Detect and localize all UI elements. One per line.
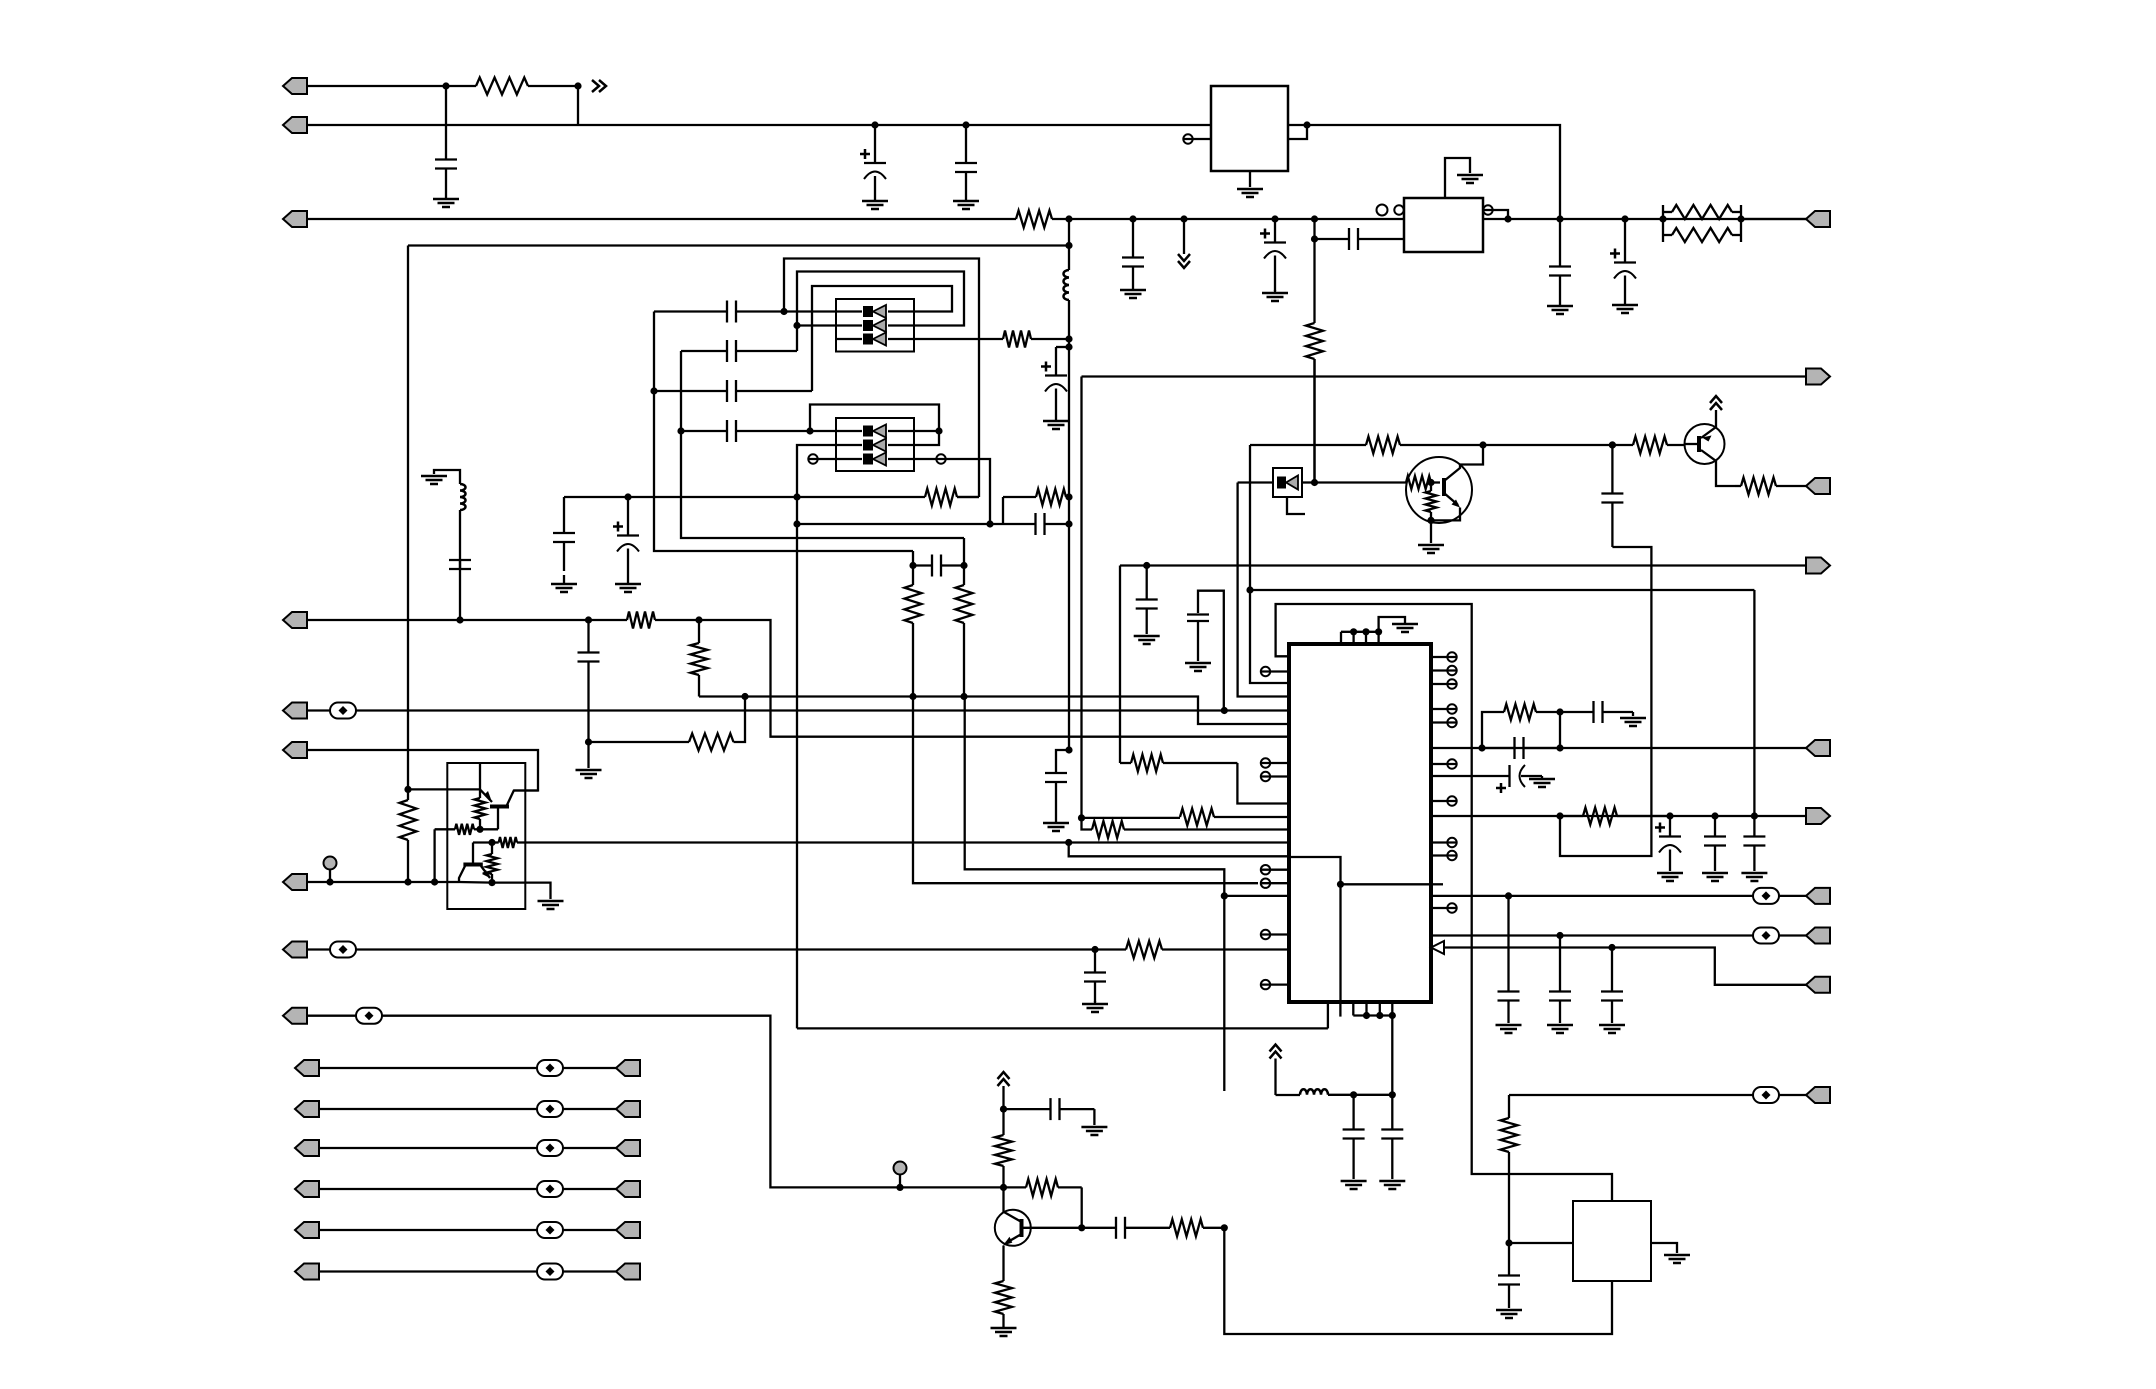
ground G35 (C39): [1185, 663, 1211, 671]
capacitor C2 (polarized): [860, 125, 886, 199]
wire feedback rect: [1276, 604, 1612, 1201]
wire y445 mid: [1483, 444, 1612, 446]
ground G10: [1547, 303, 1573, 314]
ground G1: [433, 197, 459, 207]
pin U3 left circle 984: [1261, 980, 1289, 989]
wire Q4 emitter: [1716, 464, 1735, 486]
junction row935-C32: [1556, 932, 1563, 939]
transistor Q3: [995, 1210, 1031, 1246]
junction Q2 collector node: [1479, 441, 1486, 448]
junction row896-C31: [1505, 892, 1512, 899]
junction rail696-R9: [909, 693, 916, 700]
wire x1081 vertical: [1080, 377, 1082, 818]
junction jog-x1224: [1221, 892, 1228, 899]
connector P4 (rail3 right): [1806, 211, 1830, 227]
connector P15 (bottom row 5): [295, 1222, 319, 1238]
wire Q3 emitter lead: [1002, 1246, 1004, 1281]
junction row748-a: [1478, 744, 1485, 751]
wire row710 a: [307, 709, 330, 711]
wire osc pin down: [1391, 1016, 1393, 1095]
wire y245 vertical: [407, 246, 409, 790]
junction rail3-arrow: [1180, 215, 1187, 222]
ground G26: [1496, 1025, 1522, 1033]
resistor R7: [925, 489, 979, 506]
junction U1 output: [1303, 121, 1310, 128]
junction osc-C37: [1389, 1091, 1396, 1098]
wire net-A vertical mid: [1068, 300, 1070, 750]
wire x1120 vertical: [1119, 566, 1121, 764]
capacitor C13: [654, 380, 736, 402]
connector P23 (row 935): [1806, 928, 1830, 944]
connector P5 (row 620): [283, 612, 307, 628]
wire row935: [1431, 934, 1807, 936]
pin U3 right circle 764: [1431, 759, 1457, 768]
capacitor C21: [578, 620, 600, 742]
zener diode D1 (in box): [1273, 468, 1302, 497]
net marker oval (bottom row 1): [537, 1060, 563, 1076]
junction rail3-D: [1556, 215, 1563, 222]
capacitor C38: [1498, 1243, 1520, 1308]
connector P14 (bottom row 4): [295, 1181, 319, 1197]
capacitor C34: [1004, 1098, 1095, 1120]
pin FL2 row3 left (circle): [808, 454, 836, 463]
junction rail2-C3: [962, 121, 969, 128]
wire row950: [356, 948, 1126, 950]
wire y245 line: [408, 244, 1069, 246]
wire osc inductor lead: [1276, 1094, 1301, 1096]
wire bottom row 2 right: [563, 1108, 616, 1110]
connector P12R (bottom row 2 right): [616, 1101, 640, 1117]
wire to P4: [1741, 218, 1807, 220]
junction y445 right: [1609, 441, 1616, 448]
wire crystal left pin: [1509, 1242, 1573, 1244]
wire x1224 lower vertical: [1223, 896, 1225, 1091]
junction x797-y497: [793, 493, 800, 500]
IC U3 (main IC): [1289, 644, 1431, 1002]
resistor R14: [400, 789, 417, 882]
junction net-A RC2: [1065, 520, 1072, 527]
wire bottom row 3 right: [563, 1147, 616, 1149]
net marker oval (bottom row 2): [537, 1101, 563, 1117]
net marker oval (bottom row 5): [537, 1222, 563, 1238]
wire bottom row 1 left: [319, 1067, 537, 1069]
junction rail2-C2: [871, 121, 878, 128]
pin U2 right edge circle: [1483, 205, 1493, 214]
wire FL2 row1 right stub: [914, 430, 939, 432]
capacitor C36: [1343, 1095, 1365, 1179]
capacitor C28 (polarized): [1655, 816, 1681, 871]
junction y497 pcap: [624, 493, 631, 500]
connector P10 (row 1016): [283, 1008, 307, 1024]
wire bottom row 5 left: [319, 1229, 537, 1231]
resistor R32: [995, 1280, 1012, 1326]
junction rail696-R13: [741, 693, 748, 700]
junction top pins a: [1350, 628, 1357, 635]
wire bus x654: [654, 312, 913, 552]
ground G15: [576, 770, 602, 778]
wire block output y842: [525, 841, 1289, 843]
wire bottom row 6 right: [563, 1270, 616, 1272]
wire x1250 vertical: [1250, 445, 1289, 683]
net marker oval (bottom row 6): [537, 1264, 563, 1280]
junction U2 out on rail3: [1504, 215, 1511, 222]
wire bottom row 2 left: [319, 1108, 537, 1110]
ground G2: [862, 199, 888, 209]
wire U1 bottom pin: [1249, 171, 1251, 187]
junction rail3-C4: [1129, 215, 1136, 222]
junction x654-C13: [650, 387, 657, 394]
resistor R30 (feedback): [1004, 1179, 1082, 1196]
wire C20 to L2: [459, 510, 461, 534]
connector P20 (row 748): [1806, 740, 1830, 756]
net label marker (gray circle row1016): [894, 1162, 907, 1188]
resistor R23: [1735, 478, 1807, 495]
junction row620-x588: [585, 616, 592, 623]
ground G33: [1496, 1310, 1522, 1318]
capacitor C3: [955, 125, 977, 199]
wire emitter node wire: [459, 881, 492, 884]
capacitor C5 (polarized): [1260, 219, 1286, 291]
wire y1028 line: [797, 1027, 1328, 1029]
wire top pins to ground: [1379, 617, 1405, 632]
resistor R12: [691, 620, 708, 697]
capacitor C12: [681, 340, 797, 362]
ground G22: [1529, 776, 1555, 787]
junction row620-C20: [456, 616, 463, 623]
wire FL2 row3 to y524: [946, 459, 990, 524]
junction Q2 emitter: [1427, 517, 1434, 524]
junction top pins b: [1362, 628, 1369, 635]
wire loop rectA: [784, 259, 979, 498]
wire zener anode stub: [1287, 497, 1305, 514]
junction net-A R3: [1065, 335, 1072, 342]
wire Q3 base lead: [1024, 1227, 1113, 1229]
capacitor C1: [435, 86, 457, 197]
connector P14R (bottom row 4 right): [616, 1181, 640, 1197]
wire bottom row 6 left: [319, 1270, 537, 1272]
connector P13R (bottom row 3 right): [616, 1140, 640, 1156]
capacitor C33: [1601, 948, 1623, 1024]
wire loop FL2: [810, 405, 939, 446]
junction row947-C33: [1608, 944, 1615, 951]
wire row1: [307, 85, 446, 87]
pin U3 right circle 855.5: [1431, 851, 1457, 860]
junction row882-b: [431, 878, 438, 885]
junction x1250-y590: [1246, 586, 1253, 593]
junction row882-R14: [404, 878, 411, 885]
capacitor C35: [1112, 1217, 1146, 1239]
capacitor C22: [1084, 950, 1106, 1003]
wire y590 line: [1250, 589, 1754, 591]
wire row1016 a: [307, 1015, 356, 1017]
connector P21 (row 816): [1806, 808, 1830, 824]
resistor R28: [1560, 808, 1670, 825]
net marker oval (bottom row 3): [537, 1140, 563, 1156]
junction C19 right: [960, 562, 967, 569]
wire row1095 b: [1779, 1094, 1807, 1096]
wire R26 to pin803: [1237, 763, 1289, 804]
pin U3 right circle 908: [1431, 903, 1457, 912]
connector P18 (row 376): [1806, 369, 1830, 385]
wire loop rectB: [797, 272, 964, 352]
capacitor C17: [1003, 513, 1069, 535]
wire C34 gnd hook: [1093, 1109, 1095, 1125]
resistor R22: [1612, 437, 1685, 454]
resistor R24: [1180, 809, 1289, 826]
junction net-B C8: [1311, 235, 1318, 242]
wire row566: [1120, 564, 1807, 566]
wire y524: [797, 523, 1003, 525]
IC U3 top pins: [1341, 632, 1379, 644]
capacitor C15 (polarized): [613, 497, 639, 581]
junction osc-C36: [1350, 1091, 1357, 1098]
connector P16R (bottom row 6 right): [616, 1264, 640, 1280]
junction C11 out: [780, 308, 787, 315]
junction rectB row2: [793, 322, 800, 329]
filter module FL2: [836, 418, 914, 471]
junction rail3-B: [1311, 215, 1318, 222]
capacitor C20: [449, 534, 471, 620]
capacitor C24: [1136, 566, 1158, 635]
pin U3 left circle 763: [1261, 758, 1289, 767]
wire Q3 collector lead: [1002, 1187, 1004, 1212]
resistor R4: [1306, 322, 1323, 483]
junction Q2 base-R: [1427, 479, 1434, 486]
connector P17 (row 486): [1806, 478, 1830, 494]
wire x1754 vertical: [1753, 590, 1755, 816]
capacitor C23: [1601, 445, 1623, 547]
wire zener node left: [1238, 481, 1273, 483]
net marker oval (row1095): [1753, 1087, 1779, 1103]
wire pin896 stub: [1224, 895, 1289, 897]
wire x1081 y817 branch: [1082, 817, 1181, 819]
junction top pins c: [1375, 628, 1382, 635]
capacitor C29: [1704, 816, 1726, 871]
wire x588 down: [587, 742, 589, 768]
capacitor C31: [1498, 896, 1520, 1023]
crystal X1 (box): [1573, 1201, 1651, 1281]
filter module FL1: [836, 299, 914, 352]
resistor R1: [446, 78, 578, 95]
wire FL2 row2 left: [797, 445, 836, 1028]
wire L2 top hook: [434, 470, 460, 484]
wire R9 chain down: [913, 697, 1258, 884]
junction x1224 base: [1221, 1224, 1228, 1231]
pin U3 left circle 934: [1261, 930, 1289, 939]
IC U3 internal divider: [1289, 857, 1431, 1002]
wire rail2 left segment: [307, 124, 1211, 126]
connector P22 (row 896): [1806, 888, 1830, 904]
capacitor C25: [1482, 737, 1560, 759]
ground G3: [953, 199, 979, 209]
connector P7 (row 750): [283, 742, 307, 758]
junction Q1b emitter node: [488, 879, 495, 886]
junction row1-arrow: [574, 82, 581, 89]
wire bottom row 3 left: [319, 1147, 537, 1149]
wire rail3 mid: [1069, 218, 1404, 220]
supply arrow (osc): [1270, 1045, 1282, 1059]
wire bottom row 1 right: [563, 1067, 616, 1069]
capacitor C19: [913, 555, 964, 577]
pin U3 right circle 801: [1431, 796, 1457, 805]
resistor R16 (Q1a base): [435, 824, 480, 835]
junction row710-x1224: [1221, 707, 1228, 714]
ground G31: [1341, 1181, 1367, 1189]
wire U1 right pin top: [1288, 124, 1307, 126]
junction y842-b: [1065, 839, 1072, 846]
pin U3 arrow (row 947): [1431, 941, 1444, 954]
junction rail3-A: [1065, 215, 1072, 222]
capacitor C39: [1187, 615, 1209, 662]
ground G30 (Q3): [991, 1326, 1017, 1336]
junction row882-a: [326, 878, 333, 885]
junction row566-C24: [1143, 562, 1150, 569]
connector P2 (rail2): [283, 117, 307, 133]
connector P12 (bottom row 2): [295, 1101, 319, 1117]
junction zener node: [1311, 479, 1318, 486]
capacitor C37: [1381, 1095, 1403, 1179]
junction R5 left: [1659, 215, 1666, 222]
ground G5: [1120, 287, 1146, 298]
wire C7 hook: [1056, 750, 1069, 769]
wire rail3 left: [307, 218, 1016, 220]
wire Q1a emitter to box top: [479, 763, 481, 789]
connector P6 (row 710): [283, 703, 307, 719]
off-page arrow down: [1178, 254, 1190, 268]
junction R33-crystal: [1505, 1239, 1512, 1246]
wire bottom row 4 left: [319, 1188, 537, 1190]
resistor R17 (Q1b): [487, 843, 498, 883]
junction net-A bottom: [1065, 746, 1072, 753]
wire R10 chain down: [965, 697, 1225, 896]
junction row620-x699: [695, 616, 702, 623]
junction net-A RC1: [1065, 493, 1072, 500]
wire emitter to ground: [492, 883, 551, 899]
wire rail3 right segment: [1483, 218, 1807, 220]
wire y842 to pin856: [1069, 843, 1289, 857]
transistor Q1b: [459, 843, 490, 883]
wire rail 696 (R12 to jog): [699, 697, 1289, 725]
resistor R31: [1146, 1219, 1224, 1236]
junction net-A y245: [1065, 242, 1072, 249]
resistor R21: [1250, 437, 1483, 454]
wire y497 left corner: [564, 496, 925, 498]
capacitor C30: [1743, 816, 1765, 871]
pin U3 right circle 709: [1431, 704, 1457, 713]
junction row748-R27: [1556, 708, 1563, 715]
wire down-arrow stem: [1183, 219, 1185, 254]
junction bottom pins b: [1376, 1012, 1383, 1019]
resistor R2 (rail3): [1016, 211, 1069, 228]
wire zener to pin696: [1238, 483, 1289, 697]
wire C26 gnd hook: [1632, 712, 1634, 716]
capacitor C27 polarity mark: [1496, 783, 1506, 793]
resistor R15 (Q1a e-b): [475, 789, 486, 829]
pin FL2 row3 right (circle): [914, 454, 946, 463]
connector P19 (row 566): [1806, 558, 1830, 574]
capacitor C26: [1560, 701, 1633, 723]
net marker oval (row950): [330, 942, 356, 958]
resistor R33: [1501, 1095, 1518, 1243]
capacitor C11: [654, 301, 836, 323]
junction Q1b collector node: [488, 839, 495, 846]
net marker oval (bottom row 4): [537, 1181, 563, 1197]
capacitor C6 (polarized): [1041, 347, 1067, 418]
connector P15R (bottom row 5 right): [616, 1222, 640, 1238]
junction Q3 collector: [1000, 1184, 1007, 1191]
junction Q3 supply: [1000, 1106, 1007, 1113]
connector P16 (bottom row 6): [295, 1264, 319, 1280]
wire R14 top to T1: [408, 788, 480, 790]
capacitor C27 (polarized, row776): [1431, 765, 1542, 787]
IC U2 (oscillator box): [1404, 198, 1483, 252]
transistor array Q1 (dual digital transistor): [447, 763, 525, 909]
ground G19: [1134, 636, 1160, 644]
junction row816-a: [1666, 812, 1673, 819]
junction row950-C22: [1091, 946, 1098, 953]
wire x1224 to crystal: [1224, 1228, 1612, 1334]
wire row710: [356, 709, 1289, 711]
junction row1-C1: [442, 82, 449, 89]
pin U3 left circle 671: [1261, 667, 1289, 676]
wire rail2 top segment to corner: [1307, 125, 1560, 219]
junction C14 x681: [677, 427, 684, 434]
resistor R25: [1092, 821, 1289, 838]
wire U1 right pin lower: [1288, 125, 1307, 139]
transistor Q2 (digital): [1406, 445, 1483, 523]
junction row748-b: [1556, 744, 1563, 751]
wire R16 left: [433, 829, 435, 882]
pin U3 right circle 842.5: [1431, 838, 1457, 847]
pin U1 left (n.c.): [1183, 134, 1211, 143]
junction row816-U: [1556, 812, 1563, 819]
wire Q3 supply to osc: [1274, 1059, 1276, 1096]
ground G11: [1612, 302, 1638, 313]
pin U2 left (n.c. circle): [1377, 205, 1388, 216]
wire row896: [1431, 895, 1807, 897]
junction C14 out: [806, 427, 813, 434]
ground G18 (Q2): [1418, 545, 1444, 553]
ground G8: [1043, 820, 1069, 831]
pin U3 right circle 684: [1431, 679, 1457, 688]
wire net-B vertical: [1313, 219, 1315, 322]
net marker oval (row1016): [356, 1008, 382, 1024]
ground G21: [1620, 718, 1646, 726]
ground G4 (U1): [1237, 189, 1263, 197]
junction R14 top: [404, 786, 411, 793]
resistor R8 (RC pair): [1003, 489, 1069, 524]
resistor R20 (Q2 internal): [1426, 483, 1437, 521]
junction net-A C6: [1065, 343, 1072, 350]
ground G7: [1043, 418, 1069, 429]
junction row816-c: [1751, 812, 1758, 819]
junction bottom pins c: [1389, 1012, 1396, 1019]
resistor R27 (row748 parallel): [1482, 704, 1560, 748]
resistor R29: [995, 1132, 1012, 1187]
wire C23 to x1651: [1560, 547, 1651, 856]
junction Q1 base node: [476, 826, 483, 833]
wire osc node: [1328, 1094, 1392, 1096]
capacitor C9: [1549, 219, 1571, 303]
net marker oval (row710): [330, 703, 356, 719]
connector P9 (row 950): [283, 942, 307, 958]
wire row1016: [382, 1016, 1004, 1188]
ground G24: [1702, 873, 1728, 881]
pin U3 stub right y884: [1431, 883, 1443, 885]
ground G20 (U3 top): [1392, 624, 1418, 632]
wire row1 to rail2: [577, 86, 579, 125]
junction y445-C23: [1609, 441, 1616, 448]
